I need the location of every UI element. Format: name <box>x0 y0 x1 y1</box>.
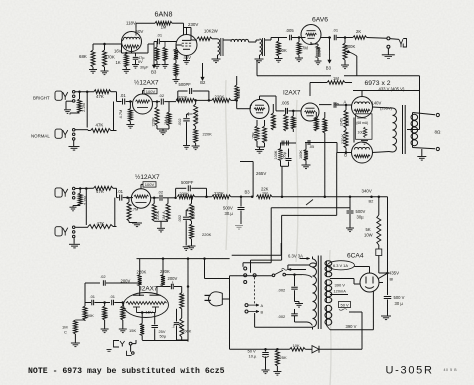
svg-text:10W: 10W <box>364 233 373 238</box>
svg-text:30µF: 30µF <box>140 66 149 70</box>
ground PI right <box>302 164 311 166</box>
tube 6CA4 <box>360 273 379 292</box>
arrow to B <box>249 311 260 313</box>
cathode resistor 220K 6AV6 (rot) <box>310 42 312 44</box>
ground under pickup transformer <box>255 58 264 60</box>
capacitor 47u 6V cathode bypass <box>135 53 137 57</box>
wire 6CA4 cathode down <box>372 291 374 330</box>
wire rail drop to intensity pot <box>187 259 189 342</box>
supply tap B3 6AV6 <box>328 36 331 39</box>
wire reverb out to pot <box>265 39 272 41</box>
power transformer primary <box>313 259 317 327</box>
ground 10 ohm <box>361 140 368 142</box>
reverb driver transformer <box>212 38 218 40</box>
svg-text:B3: B3 <box>245 190 251 195</box>
boxed label 100V <box>144 88 157 93</box>
svg-text:10K: 10K <box>293 343 300 348</box>
svg-text:5K: 5K <box>366 227 371 232</box>
svg-text:500K: 500K <box>277 48 287 53</box>
wire top rail tremolo <box>137 258 230 260</box>
ground stage1 resistors <box>157 128 169 130</box>
svg-text:6AV6: 6AV6 <box>312 17 328 24</box>
svg-text:30 µ: 30 µ <box>395 301 404 306</box>
cathode lead 6AN8 triode <box>131 48 133 53</box>
wire heater winding to 6CA4 <box>355 266 370 268</box>
input jack 4 <box>55 227 62 236</box>
wire 265V-area corner <box>280 243 282 255</box>
svg-text:.02: .02 <box>100 274 106 279</box>
wire PI internals <box>259 96 261 100</box>
svg-text:.01: .01 <box>110 294 115 299</box>
svg-text:10Ω: 10Ω <box>358 131 365 135</box>
plate lead 6AV6 to .01 cap <box>321 37 331 39</box>
cathode ground 6AN8 pentode <box>186 56 188 61</box>
svg-text:220K: 220K <box>160 269 170 274</box>
winding flag 6.3V 1A <box>328 261 355 270</box>
ground B1 cap <box>381 315 391 317</box>
reverb pickup transformer <box>260 39 262 55</box>
svg-text:B3: B3 <box>326 65 332 70</box>
wire PI output A routing <box>271 207 350 209</box>
cathode mark tube2 <box>136 202 147 204</box>
ground stage2 resistors <box>154 220 168 222</box>
AC plug <box>209 292 223 306</box>
ground 1M t2 <box>119 328 127 330</box>
svg-text:6V: 6V <box>138 60 143 64</box>
svg-text:40 5 B: 40 5 B <box>444 368 458 372</box>
ground footswitch <box>107 349 112 351</box>
svg-text:50 V: 50 V <box>248 348 257 353</box>
svg-text:6.3V 3A: 6.3V 3A <box>288 253 303 258</box>
svg-text:47K: 47K <box>96 122 104 127</box>
svg-text:.01: .01 <box>120 93 126 98</box>
grid zigzag inside tube1 <box>136 100 151 103</box>
tremolo tube internals <box>133 294 144 296</box>
ground under 1K <box>122 69 130 71</box>
svg-text:.01: .01 <box>117 189 123 194</box>
wire diode to 50V winding <box>361 312 363 349</box>
oscillator coil inside 6AN8 triode <box>124 37 140 39</box>
svg-text:500 V: 500 V <box>394 295 405 300</box>
wire join 47Ks ch2 <box>113 187 117 189</box>
grid zigzag 6973 top <box>354 109 370 112</box>
primary top loop <box>310 263 317 267</box>
wire PI plate rail to 265V <box>253 163 255 165</box>
ground 25K <box>273 371 281 373</box>
supply tap B3 arrow <box>153 42 155 69</box>
svg-text:.002: .002 <box>177 215 182 223</box>
svg-text:.02: .02 <box>159 93 165 98</box>
svg-text:390 V: 390 V <box>346 324 357 329</box>
wire plate-top rail <box>136 22 155 24</box>
svg-text:1M A: 1M A <box>162 211 166 220</box>
wire B from PI <box>314 142 338 144</box>
ground under driver transformer <box>212 58 221 60</box>
grid zigzag 6973 bottom <box>354 155 370 158</box>
svg-text:15V: 15V <box>146 310 153 315</box>
output jack sleeve <box>403 39 406 48</box>
ghost ground B3 cap <box>235 226 243 230</box>
svg-text:15K: 15K <box>129 328 136 333</box>
svg-text:50mA: 50mA <box>357 116 367 120</box>
wire 265V riser <box>252 162 254 197</box>
plate coil 6973 top <box>355 102 370 104</box>
wire 433V node <box>378 245 380 249</box>
input jack 3 <box>55 188 62 197</box>
input jack 2 (normal) <box>55 129 62 138</box>
svg-text:.01: .01 <box>157 33 163 38</box>
wire primary bottom lead <box>255 326 313 328</box>
terminal circles column <box>244 267 247 270</box>
faint scan streaks (decorative) <box>226 80 331 385</box>
svg-text:220K: 220K <box>150 117 155 127</box>
wire B3 rail to 340V <box>272 196 388 198</box>
output jack circle bottom <box>387 45 390 48</box>
wire bias line <box>230 348 290 350</box>
tube 6AV6 <box>301 25 321 45</box>
svg-text:390 V: 390 V <box>335 282 346 287</box>
speaker terminal bottom <box>412 146 414 148</box>
screen line 6973 <box>353 118 355 143</box>
svg-text:100K: 100K <box>274 150 278 159</box>
heater tap arrow right <box>300 258 310 260</box>
ground under 4.7M <box>295 57 303 59</box>
svg-text:10.µ: 10.µ <box>249 354 258 359</box>
svg-text:435V: 435V <box>389 270 399 275</box>
svg-text:220K: 220K <box>203 132 213 137</box>
terminal circle A <box>245 304 248 307</box>
svg-text:2K: 2K <box>356 29 361 34</box>
tube 6AN8 pentode section <box>176 35 197 56</box>
ground line filter <box>295 303 303 305</box>
wiper 500K to feedback bus <box>348 52 357 57</box>
svg-text:U-305R: U-305R <box>386 364 434 376</box>
wire jack3-jack4 link <box>85 189 87 226</box>
svg-text:100V: 100V <box>145 182 155 187</box>
wire 330K bottom to rail <box>324 133 326 197</box>
wire A to grid <box>346 104 352 106</box>
svg-text:B2: B2 <box>369 199 375 204</box>
svg-text:1M: 1M <box>161 25 167 30</box>
cathode mark tube1 <box>137 107 148 109</box>
wire HV winding to 6CA4 plate <box>353 279 355 285</box>
svg-text:.002: .002 <box>278 288 287 293</box>
wire PI lower U to rail <box>281 165 289 167</box>
heater tap arrow left <box>288 264 310 266</box>
svg-text:4.7M: 4.7M <box>118 110 123 119</box>
tube 6AN8 triode section <box>122 32 142 52</box>
svg-text:50µ: 50µ <box>160 334 167 339</box>
svg-text:B: B <box>261 309 264 314</box>
plug cord to riser <box>222 298 229 300</box>
input jack 1 (bright) <box>55 91 62 100</box>
svg-text:15K: 15K <box>252 132 256 139</box>
wire right end routing <box>335 214 337 216</box>
svg-text:30µ: 30µ <box>357 215 365 220</box>
arrow to A <box>249 304 260 306</box>
cathode box 50mA (68mA) 10ohm <box>356 114 373 140</box>
diode bias rectifier <box>305 348 312 350</box>
svg-text:B2: B2 <box>200 80 206 85</box>
boxed label 100V second <box>143 182 156 187</box>
grid zigzag 6AN8 triode <box>124 45 139 48</box>
svg-text:A: A <box>261 303 264 308</box>
svg-text:68K: 68K <box>79 54 87 59</box>
coupling caps PI plates <box>280 142 296 144</box>
svg-text:½12AX7: ½12AX7 <box>135 173 160 181</box>
svg-text:NORMAL: NORMAL <box>31 134 50 139</box>
svg-text:½12AX7: ½12AX7 <box>134 79 159 87</box>
ground 1M t1 <box>101 328 109 330</box>
svg-text:120mA: 120mA <box>334 288 347 293</box>
svg-text:.005: .005 <box>286 28 295 33</box>
AC riser wire <box>229 276 231 350</box>
svg-text:100K: 100K <box>299 150 303 159</box>
svg-text:.002: .002 <box>278 314 287 319</box>
grid lead 6AV6 <box>301 37 306 39</box>
svg-text:500PF: 500PF <box>179 82 192 87</box>
terminal circle B <box>245 310 248 313</box>
wire B riser <box>336 153 338 216</box>
wire rail drop to AC area <box>204 259 206 279</box>
plate leads 6973 <box>361 91 363 97</box>
svg-text:118V: 118V <box>126 21 136 26</box>
output jack contact <box>390 38 399 41</box>
wire node to PI grid <box>236 100 238 108</box>
power switch <box>230 275 273 277</box>
svg-text:220K: 220K <box>137 270 147 275</box>
svg-text:BRIGHT: BRIGHT <box>33 95 50 100</box>
grid lead <box>176 44 182 46</box>
svg-text:NOTE - 6973 may be substituted: NOTE - 6973 may be substituted with 6cz5 <box>28 366 225 376</box>
ground output jack <box>387 48 389 55</box>
tube 12AX7 PI second half <box>301 103 319 121</box>
ground OPT secondary <box>421 149 423 156</box>
svg-text:220K: 220K <box>318 48 322 57</box>
wire B to grid <box>346 152 352 154</box>
ground 1M C <box>71 342 80 344</box>
svg-text:500V: 500V <box>356 209 366 214</box>
svg-text:.01: .01 <box>90 294 95 299</box>
ground under 68K <box>89 69 97 71</box>
tremolo cathodes <box>136 307 138 313</box>
svg-text:BI: BI <box>390 277 394 282</box>
tube 12AX7 first half <box>133 94 153 114</box>
plate lead to 100V box 2 <box>140 184 142 188</box>
wire to B3 tap <box>140 52 148 54</box>
svg-text:.005: .005 <box>281 100 290 105</box>
output transformer primary <box>389 107 393 109</box>
svg-text:30.µ: 30.µ <box>225 211 234 216</box>
ground jack1 <box>66 100 72 102</box>
svg-text:B3: B3 <box>151 70 157 75</box>
winding tap lines HV <box>330 278 354 280</box>
footswitch jack <box>114 341 120 348</box>
tube 12AX7 second half <box>131 189 150 208</box>
svg-text:265V: 265V <box>256 171 266 176</box>
svg-text:.002: .002 <box>177 118 182 126</box>
svg-text:1K: 1K <box>116 60 121 65</box>
svg-text:22K: 22K <box>261 186 269 191</box>
svg-text:340V: 340V <box>362 188 372 193</box>
svg-text:220K: 220K <box>202 232 212 237</box>
output jack circle top <box>387 37 390 40</box>
wire jack1-jack2 link <box>86 92 88 128</box>
svg-text:.01: .01 <box>333 28 339 33</box>
svg-text:6CA4: 6CA4 <box>347 253 364 260</box>
svg-text:(68 mA): (68 mA) <box>356 121 368 125</box>
ground bias cap <box>262 369 270 371</box>
reverb spring coil <box>231 39 249 42</box>
wire grid bus to 68K/470K <box>93 43 122 45</box>
ground under 470K <box>101 70 109 72</box>
output transformer secondary <box>411 114 418 120</box>
resistor 10 ohm cathode <box>364 127 367 138</box>
ground jack2 <box>73 141 75 147</box>
footswitch connector 2 <box>130 345 132 352</box>
svg-text:.05: .05 <box>309 145 314 149</box>
svg-text:6AN8: 6AN8 <box>155 10 173 19</box>
svg-text:100V: 100V <box>146 89 156 94</box>
svg-text:I2AX7: I2AX7 <box>283 90 301 97</box>
svg-text:A: A <box>344 100 347 105</box>
dashed link switch to AB <box>254 277 256 303</box>
wire bus y76 <box>257 75 331 77</box>
wire join 47Ks ch1 <box>111 91 117 93</box>
ground PI cathode <box>255 149 264 151</box>
slash mark <box>306 200 313 206</box>
svg-text:I2AX7: I2AX7 <box>140 285 158 292</box>
plate lead 6AN8 pentode <box>186 28 188 35</box>
supply tap B2 arrow <box>202 63 204 77</box>
svg-text:1M: 1M <box>333 76 339 81</box>
svg-text:500PF: 500PF <box>181 180 194 185</box>
wire PI output B routing <box>282 214 337 216</box>
ground tone1 <box>192 145 200 147</box>
wire B+ 433V rail <box>353 90 420 92</box>
tube 6973 bottom <box>352 142 373 163</box>
ground B2 cap <box>346 227 354 229</box>
svg-text:25K: 25K <box>280 355 287 360</box>
wire to spring line <box>223 39 231 41</box>
wire 6CA4 plate to 435V <box>379 282 383 284</box>
svg-text:10K2W: 10K2W <box>204 29 218 34</box>
wire 47K/500K junction to switch box <box>177 339 182 341</box>
speaker terminal top <box>412 113 414 115</box>
ground tone2 <box>188 245 196 247</box>
svg-text:47K: 47K <box>96 94 104 99</box>
wire switch to primary <box>286 274 303 276</box>
winding flag 50V <box>339 302 351 308</box>
svg-text:500V: 500V <box>223 206 233 211</box>
svg-text:.02: .02 <box>158 190 164 195</box>
svg-text:8Ω: 8Ω <box>435 130 442 135</box>
grid zigzag inside tube2 <box>134 195 149 198</box>
svg-text:C: C <box>64 330 67 335</box>
svg-text:16V: 16V <box>114 49 122 54</box>
tube 12AX7 PI first half <box>250 100 269 119</box>
wire tremolo bottom rail <box>142 340 188 342</box>
output transformer core <box>402 105 404 154</box>
plate coil 6973 bottom <box>355 147 370 149</box>
power transformer secondary windings <box>325 261 332 266</box>
svg-text:230V: 230V <box>188 22 198 27</box>
tube 12AX7 tremolo envelope <box>124 293 169 318</box>
svg-text:6.3 V 1A: 6.3 V 1A <box>333 263 348 268</box>
svg-text:50 V: 50 V <box>341 302 350 307</box>
tube 6973 top <box>352 97 373 118</box>
ground jack4 <box>73 238 75 244</box>
power transformer core <box>317 256 319 330</box>
svg-text:(245): (245) <box>340 118 344 126</box>
potentiometer 500K reverb <box>278 38 280 42</box>
plate lead to 100V box <box>142 91 144 95</box>
